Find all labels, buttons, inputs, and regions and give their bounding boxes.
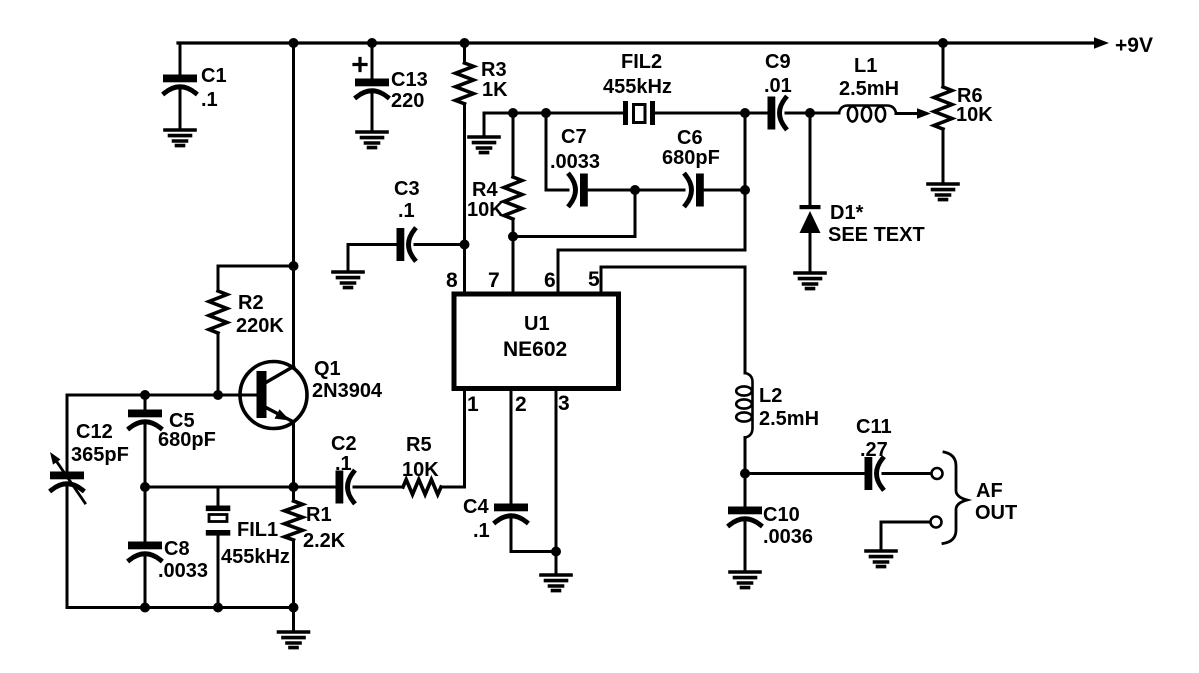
wire IF line left <box>484 112 623 115</box>
resistor R5 <box>403 480 441 495</box>
ground C13 <box>357 132 387 148</box>
node C7-C6 junction <box>630 185 640 195</box>
wire D1 anode <box>809 113 812 206</box>
resistor R2 <box>209 291 227 333</box>
capacitor C2 <box>337 472 354 502</box>
capacitor C10 <box>744 474 747 509</box>
wire C1 bottom <box>179 90 182 128</box>
node IF-C6 junction <box>740 108 750 118</box>
svg-text:.1: .1 <box>335 453 352 475</box>
node base-C5 junction <box>140 390 150 400</box>
svg-text:2.5mH: 2.5mH <box>759 408 819 430</box>
svg-text:680pF: 680pF <box>158 429 216 451</box>
wire C11 to terminal <box>883 472 931 475</box>
capacitor C12 top wire <box>66 395 69 473</box>
svg-text:C11: C11 <box>856 416 892 438</box>
svg-text:.27: .27 <box>860 439 888 461</box>
svg-text:R3: R3 <box>481 59 507 81</box>
wire base line <box>67 394 218 397</box>
wire pin6 route <box>744 190 747 250</box>
svg-text:C13: C13 <box>391 69 428 91</box>
svg-text:.0033: .0033 <box>550 151 600 173</box>
node emitter-C5 junction <box>140 482 150 492</box>
node collector-R2 junction <box>289 261 299 271</box>
svg-text:R5: R5 <box>406 434 432 456</box>
svg-text:C8: C8 <box>164 538 190 560</box>
svg-text:C3: C3 <box>394 178 420 200</box>
transistor Q1 <box>240 362 307 429</box>
wire C13 bottom <box>371 94 374 130</box>
node rail-C13 junction <box>367 38 377 48</box>
node rail-R6 junction <box>938 38 948 48</box>
wire C9 to L1 <box>786 112 839 115</box>
ground main <box>292 608 295 631</box>
svg-text:365pF: 365pF <box>71 444 129 466</box>
svg-text:C7: C7 <box>561 126 587 148</box>
wire L2 bottom <box>744 438 747 474</box>
node AF OUT brace <box>943 452 967 544</box>
svg-text:220: 220 <box>391 90 424 112</box>
node IF-pin7 junction <box>508 108 518 118</box>
capacitor C12 variable <box>52 473 83 490</box>
svg-text:2N3904: 2N3904 <box>312 380 383 402</box>
wire C2 to R5 <box>354 486 403 489</box>
wire C13 top <box>371 43 374 80</box>
svg-text:FIL2: FIL2 <box>621 51 662 73</box>
capacitor C3 <box>398 230 415 260</box>
node rail-collector junction <box>289 38 299 48</box>
op-amp U1 box <box>454 294 619 389</box>
wire +9V top rail <box>178 41 1097 44</box>
svg-text:.1: .1 <box>398 200 415 222</box>
svg-text:AF: AF <box>976 480 1003 502</box>
wire R2 top <box>218 265 294 268</box>
svg-text:.1: .1 <box>473 520 490 542</box>
node R6 wiper arrow <box>917 108 931 118</box>
svg-text:680pF: 680pF <box>662 147 720 169</box>
node pin3-C4 junction <box>551 547 561 557</box>
svg-text:220K: 220K <box>236 315 284 337</box>
wire pin 1 <box>463 388 466 487</box>
svg-text:C10: C10 <box>763 504 800 526</box>
wire FIL2 to C9 <box>655 112 769 115</box>
wire Q1 emitter vertical <box>292 422 295 487</box>
wire C3 to pin8 node <box>415 243 465 246</box>
ground R6 <box>928 184 958 200</box>
svg-text:5: 5 <box>588 268 600 291</box>
svg-text:.1: .1 <box>201 89 218 111</box>
resistor R3 <box>463 43 466 63</box>
wire bottom line <box>67 606 294 609</box>
ground C3 <box>347 245 350 271</box>
ground C10 <box>730 572 760 588</box>
wire emitter line <box>145 486 337 489</box>
svg-text:455kHz: 455kHz <box>603 76 672 98</box>
svg-text:.0036: .0036 <box>763 526 813 548</box>
svg-text:R4: R4 <box>472 179 498 201</box>
filter FIL2 <box>623 101 628 125</box>
wire pin5 route <box>600 267 603 292</box>
node rail-R3 junction <box>460 38 470 48</box>
svg-text:C1: C1 <box>201 65 227 87</box>
svg-text:Q1: Q1 <box>314 358 341 380</box>
svg-text:.01: .01 <box>764 75 792 97</box>
wire C7 drop from IF line <box>545 113 548 190</box>
wire IF line to C6 node <box>744 113 747 190</box>
svg-text:1K: 1K <box>482 79 508 101</box>
svg-text:8: 8 <box>446 269 458 292</box>
capacitor C1 <box>165 76 196 93</box>
wire L1 to R6 wiper <box>896 112 919 115</box>
node L2-C10 junction <box>740 469 750 479</box>
wire AF lower terminal <box>881 521 930 524</box>
ground pin3 <box>555 552 558 574</box>
svg-text:10K: 10K <box>467 199 504 221</box>
svg-text:R1: R1 <box>306 504 332 526</box>
wire C7C6 mid to pin7 <box>634 190 637 237</box>
svg-text:SEE TEXT: SEE TEXT <box>828 224 925 246</box>
wire C6 right <box>703 189 746 192</box>
svg-text:10K: 10K <box>956 104 993 126</box>
wire Q1 base lead <box>218 394 257 397</box>
diode D1 <box>800 205 821 209</box>
svg-text:OUT: OUT <box>975 502 1017 524</box>
svg-text:6: 6 <box>544 269 556 292</box>
capacitor C4 <box>496 505 527 522</box>
capacitor C11 <box>866 459 883 489</box>
node base-R2 junction <box>213 390 223 400</box>
svg-text:2.2K: 2.2K <box>303 530 346 552</box>
resistor R1 <box>292 487 295 501</box>
wire R5 to pin1 <box>441 486 465 489</box>
node bottom-FIL1 junction <box>213 603 223 613</box>
svg-text:.0033: .0033 <box>158 560 208 582</box>
capacitor C3 left wire <box>348 243 398 246</box>
svg-text:C2: C2 <box>331 433 357 455</box>
filter FIL1 <box>217 487 220 505</box>
inductor L1 <box>839 106 896 114</box>
capacitor C5 <box>144 395 147 411</box>
svg-text:NE602: NE602 <box>503 338 567 361</box>
svg-text:C9: C9 <box>765 51 791 73</box>
svg-text:1: 1 <box>467 393 479 416</box>
wire pin 3 <box>555 388 558 552</box>
node emitter junction <box>289 482 299 492</box>
svg-text:L2: L2 <box>759 385 782 407</box>
svg-text:FIL1: FIL1 <box>237 519 278 541</box>
capacitor C13 <box>357 80 388 97</box>
node IF-C7 junction <box>541 108 551 118</box>
wire Q1 collector vertical <box>292 43 295 368</box>
svg-text:L1: L1 <box>854 55 877 77</box>
node C6-right junction <box>740 185 750 195</box>
capacitor C13 plus sign <box>354 59 366 71</box>
node bottom-R1 junction <box>289 603 299 613</box>
svg-text:455kHz: 455kHz <box>221 546 290 568</box>
svg-text:10K: 10K <box>402 459 439 481</box>
capacitor C9 <box>769 98 786 128</box>
svg-text:7: 7 <box>488 269 500 292</box>
svg-text:3: 3 <box>558 392 570 415</box>
svg-text:C6: C6 <box>677 127 703 149</box>
wire C7 to C6 <box>587 189 685 192</box>
svg-text:R2: R2 <box>238 292 264 314</box>
wire AF line <box>745 472 866 475</box>
node pin8 junction <box>460 240 470 250</box>
wire pin 2 <box>510 388 513 505</box>
capacitor C7 <box>570 175 587 205</box>
ground D1 <box>795 273 825 289</box>
inductor L2 <box>745 373 753 438</box>
ground AF lower <box>866 551 896 567</box>
node AF terminal lower <box>931 517 942 528</box>
node pin7-feedback junction <box>508 232 518 242</box>
svg-text:C12: C12 <box>76 421 113 443</box>
svg-text:+9V: +9V <box>1115 34 1153 57</box>
resistor R4 <box>512 113 515 177</box>
wire C1 top <box>179 43 182 76</box>
svg-text:C4: C4 <box>463 496 489 518</box>
wire pin 8 <box>463 245 466 293</box>
svg-text:D1*: D1* <box>830 202 864 224</box>
svg-text:U1: U1 <box>524 313 550 335</box>
wire R3 to pin8 node <box>463 104 466 245</box>
svg-text:2: 2 <box>515 393 527 416</box>
wire C12 bottom <box>66 487 69 608</box>
capacitor C6 <box>686 175 703 205</box>
node AF terminal upper <box>932 468 943 479</box>
ground IF-line left stub <box>483 113 486 135</box>
resistor R6 <box>942 43 945 87</box>
node bottom-C8 junction <box>140 603 150 613</box>
node C9-D1 junction <box>805 108 815 118</box>
ground C1 <box>165 130 195 146</box>
svg-text:2.5mH: 2.5mH <box>839 78 899 100</box>
node +9V arrow <box>1094 37 1109 49</box>
capacitor C8 <box>144 487 147 543</box>
